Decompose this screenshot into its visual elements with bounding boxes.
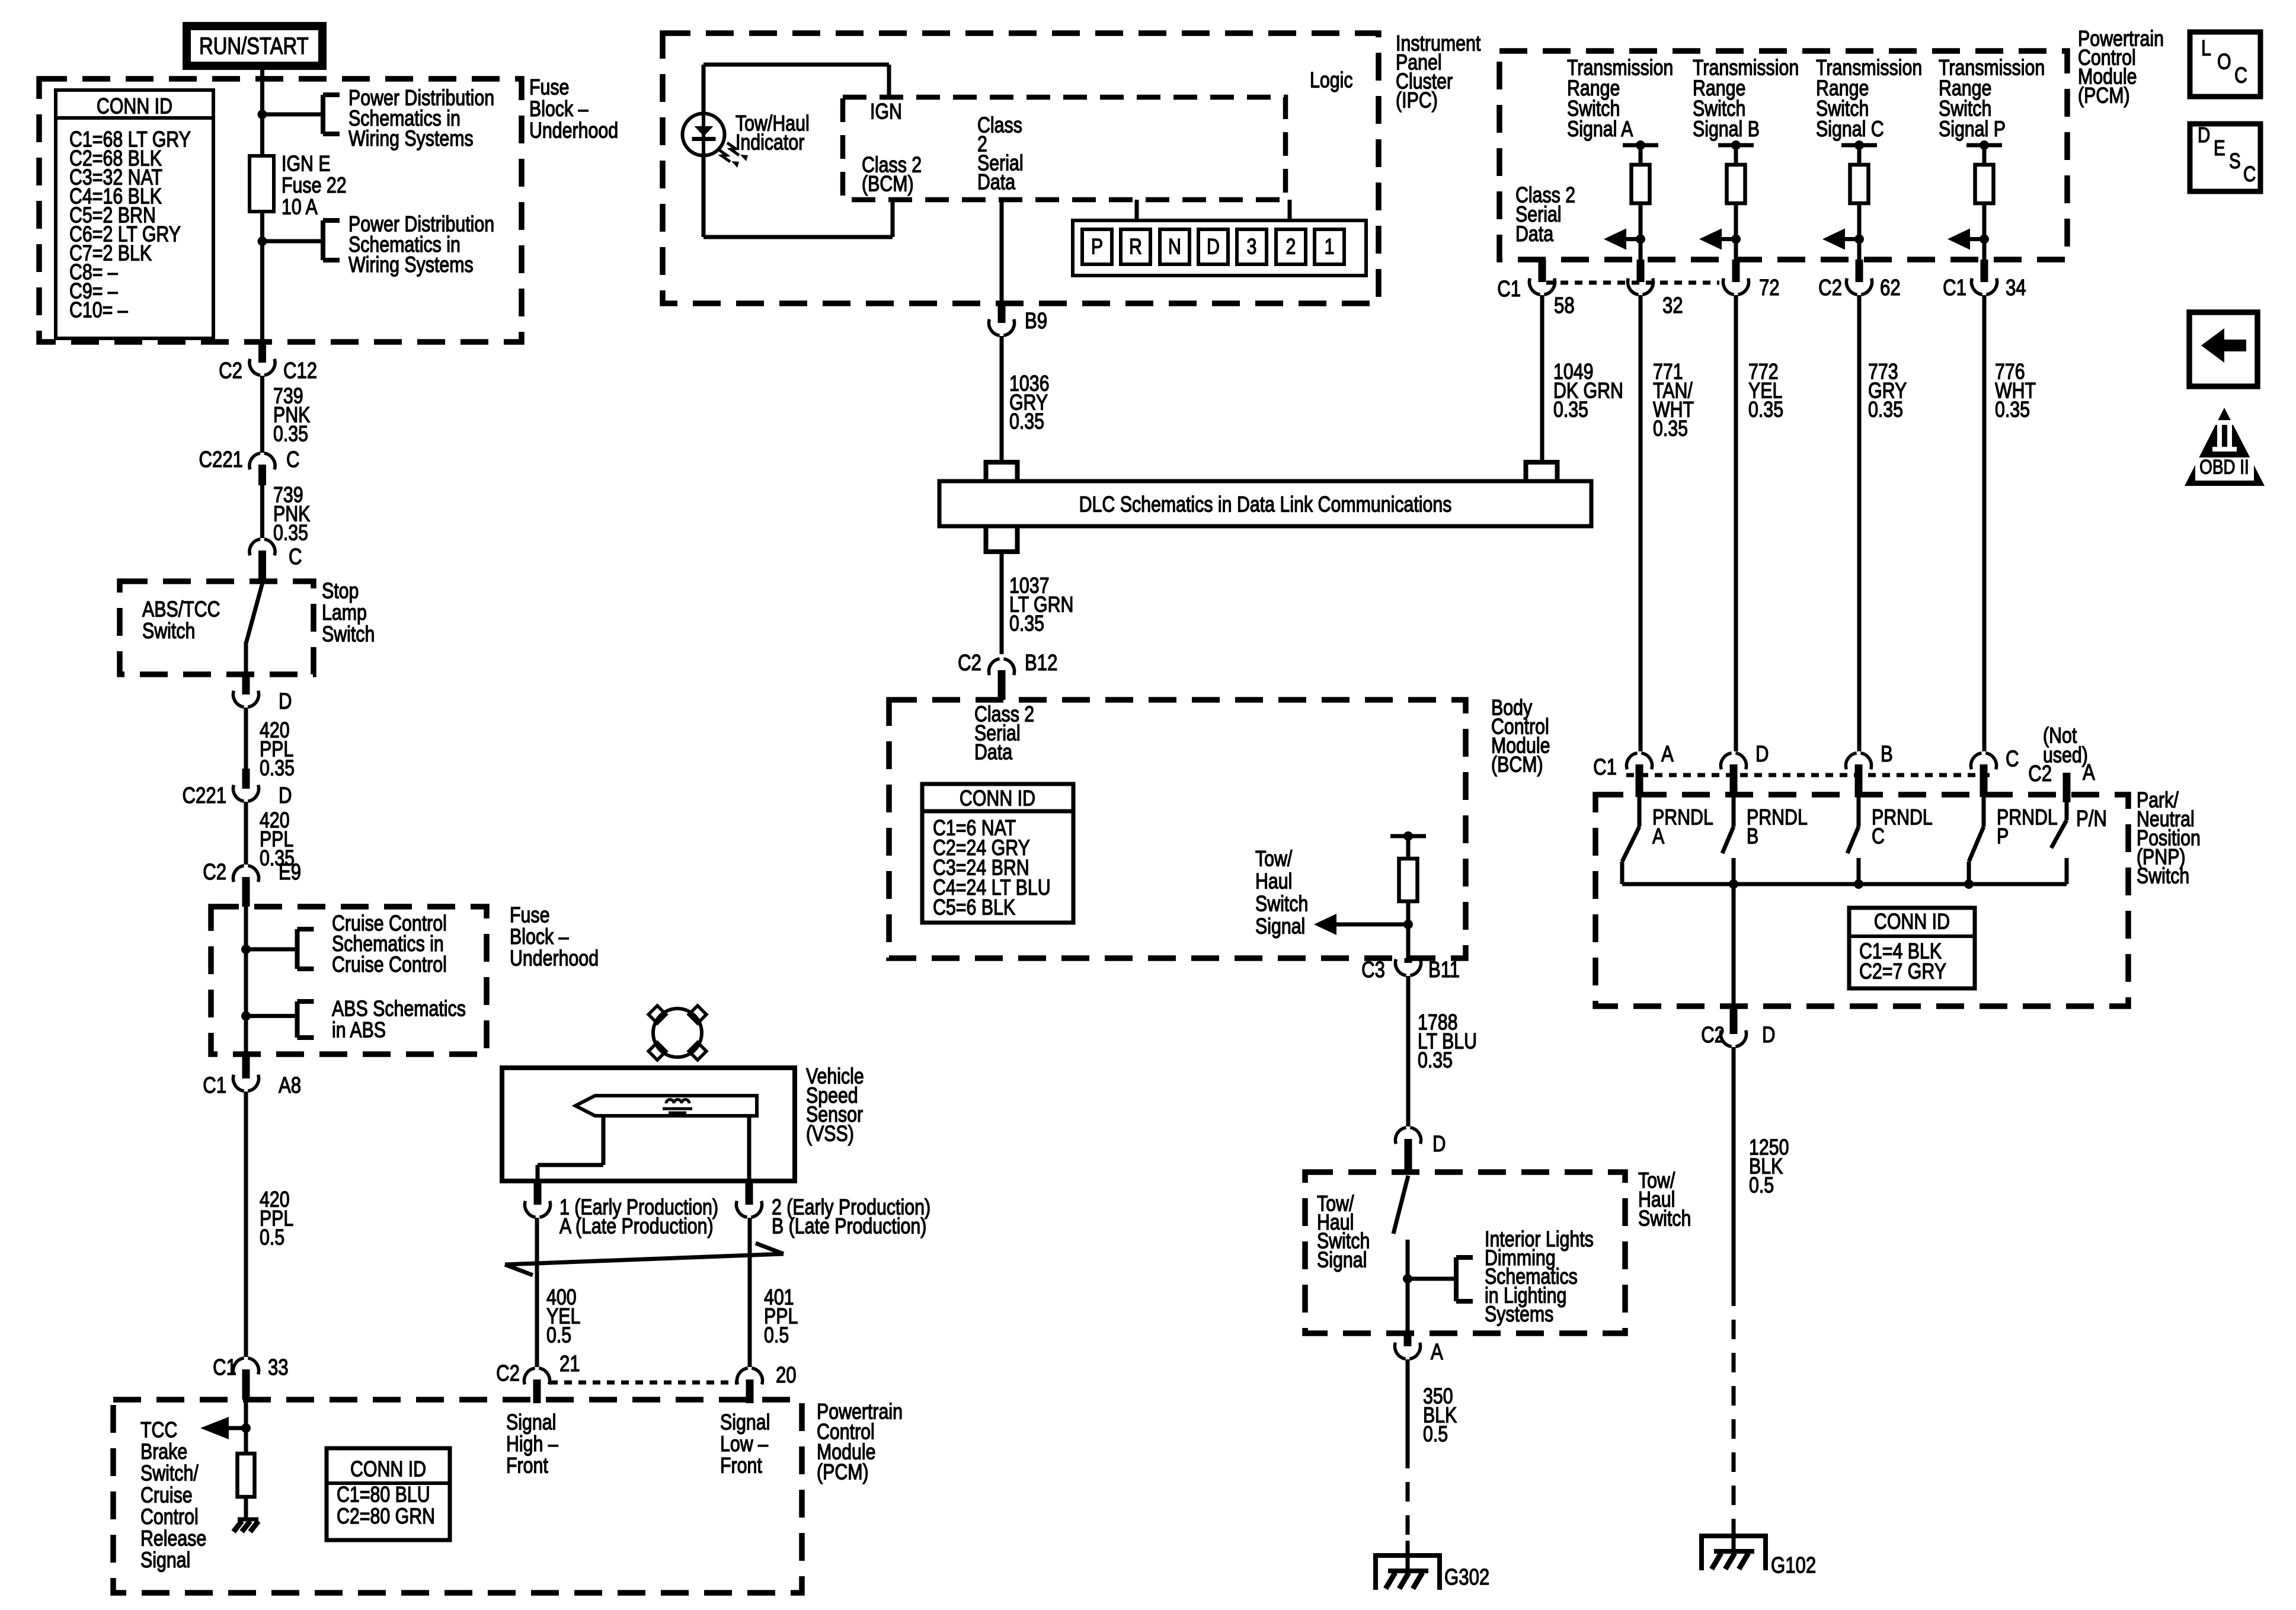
IPC logic dashed box [843,97,1285,200]
VSS internal wire pin2 [747,1116,752,1181]
svg-text:ABS/TCC: ABS/TCC [142,597,220,622]
svg-text:0.5: 0.5 [764,1323,789,1348]
svg-text:TCC: TCC [140,1418,177,1443]
svg-text:C1=80 BLU: C1=80 BLU [337,1483,430,1507]
svg-text:Control: Control [140,1505,199,1529]
junction node bar A [1636,140,1645,150]
svg-text:Switch: Switch [1638,1206,1691,1231]
svg-text:Signal A: Signal A [1567,117,1633,142]
vehicle speed sensor box [502,1068,795,1181]
svg-text:A: A [1652,824,1665,849]
svg-text:C2: C2 [219,359,242,383]
svg-text:CONN ID: CONN ID [97,94,172,119]
svg-text:0.35: 0.35 [273,521,308,546]
svg-text:Low –: Low – [720,1432,768,1457]
wire 1250 BLK dashed [1732,1286,1736,1528]
connector pin 20 [746,1379,754,1403]
PRNDL P switch blade [1982,797,1986,827]
svg-text:C10= –: C10= – [69,298,128,323]
resistor (tow/haul pullup) [1399,859,1418,901]
svg-text:0.5: 0.5 [546,1323,571,1348]
svg-text:B: B [1747,824,1758,849]
svg-text:1: 1 [1325,235,1335,260]
svg-text:C221: C221 [199,447,243,472]
wire below blade [1406,1240,1410,1333]
svg-text:Stop: Stop [322,579,359,604]
svg-text:E9: E9 [279,860,301,885]
svg-text:used): used) [2043,743,2088,768]
connector C221/C [258,465,266,485]
pullup bar P [1966,143,2002,148]
svg-text:(BCM): (BCM) [1491,753,1543,777]
twisted pair indicator arrow [505,1254,784,1265]
instrument panel cluster dashed box [663,33,1379,303]
svg-text:OBD II: OBD II [2199,456,2249,478]
reluctor gear symbol [653,1009,702,1057]
junction node bus D [1729,879,1738,889]
svg-text:Fuse: Fuse [529,75,569,100]
tow/haul indicator LED [683,114,725,156]
svg-text:(PCM): (PCM) [2078,84,2130,108]
svg-text:G102: G102 [1771,1553,1816,1578]
CONN ID table (PCM bottom) [327,1448,450,1540]
svg-text:High –: High – [506,1432,558,1457]
VSS coil squiggle [666,1100,689,1104]
wire 400 YEL [535,1218,539,1367]
svg-text:C: C [2006,747,2019,772]
svg-text:C1: C1 [1497,277,1521,302]
wire 739 PNK segment 1 [260,376,264,453]
PRNDL A switch blade [1638,797,1642,827]
fuse block dashed box [39,79,522,342]
svg-text:CONN ID: CONN ID [1874,910,1950,934]
connector C1/A (PNP) [1636,764,1643,797]
connector pin B (PNP) [1855,764,1863,797]
wire 350 BLK dashed to ground [1406,1449,1410,1541]
junction node bar B [1731,140,1741,150]
connector C1/A8 [242,1054,250,1078]
svg-text:D: D [279,689,292,714]
arrow range switch signal A [1626,237,1641,241]
wire 771 TAN/WHT [1639,295,1643,751]
PRND display stems [1135,200,1139,220]
svg-text:Systems: Systems [1485,1302,1553,1327]
wire 776 WHT [1982,295,1987,751]
connector pin 2/B (VSS) [746,1181,753,1205]
junction node (dimming) [1403,1274,1412,1283]
P/N switch blade [2065,802,2069,820]
junction node arrow A [1636,235,1645,244]
svg-text:C: C [2243,162,2256,185]
wire 420 PPL segment 1 [244,708,248,769]
connector line PNP (dotted) [1626,773,1996,777]
svg-text:B (Late Production): B (Late Production) [772,1214,926,1239]
cruise fuse block dashed box [211,907,487,1054]
svg-text:62: 62 [1880,276,1901,300]
legend box DESC [2190,124,2260,191]
PCM dashed box (bottom left) [113,1400,802,1593]
wire LED bottom return [702,155,706,237]
wire pin33 into PCM [244,1400,248,1428]
svg-text:Release: Release [140,1526,206,1551]
svg-text:Signal: Signal [1317,1247,1367,1272]
svg-text:Front: Front [506,1454,548,1478]
svg-text:P/N: P/N [2076,806,2107,831]
arrow tow/haul switch signal [1336,923,1408,927]
svg-text:0.35: 0.35 [1009,409,1044,434]
svg-text:Indicator: Indicator [736,130,804,155]
svg-text:2: 2 [1286,235,1296,260]
wire resistor to arrow B [1734,203,1738,260]
wire LED top feed [702,65,706,114]
wire 350 BLK solid [1406,1359,1410,1449]
svg-text:S: S [2229,149,2241,172]
connector C2/B12 [998,670,1006,700]
svg-text:0.5: 0.5 [1749,1173,1774,1198]
svg-text:Fuse: Fuse [510,903,549,928]
PRND segment 1 [1315,229,1344,264]
ground G302 [1373,1553,1442,1558]
junction node (lower feed) [258,236,267,246]
wire PNP to C2/D [1732,884,1736,1006]
svg-text:20: 20 [776,1363,797,1388]
svg-text:Tow/: Tow/ [1255,847,1293,872]
wire bar to resistor [1406,836,1411,859]
svg-text:Data: Data [977,170,1015,195]
svg-text:C: C [286,447,300,472]
svg-text:Brake: Brake [140,1439,187,1464]
wire 773 GRY [1857,295,1862,751]
connector pin C (PNP) [1980,764,1988,797]
junction node (cruise) [241,945,251,954]
svg-text:CONN ID: CONN ID [960,786,1035,811]
net bracket above DLC (1036) [984,460,1020,465]
svg-text:33: 33 [268,1355,289,1380]
svg-text:Switch/: Switch/ [140,1461,199,1486]
svg-text:B: B [1881,742,1893,767]
svg-text:Logic: Logic [1310,68,1353,93]
connector C221/D [242,769,250,789]
svg-text:L: L [2201,36,2211,61]
svg-text:B9: B9 [1025,309,1047,334]
VSS internal wire pin1 [602,1116,606,1165]
svg-text:0.35: 0.35 [1995,398,2030,422]
off-page bracket (ABS) [295,1001,300,1038]
svg-text:Signal C: Signal C [1816,117,1884,142]
legend box LOC [2190,32,2260,97]
wire bar to resistor C [1857,145,1862,165]
wire 1049 DK GRN [1540,295,1544,460]
PRND segment D [1198,229,1228,264]
wire to dimming bracket [1408,1277,1456,1281]
svg-text:D: D [1762,1023,1776,1048]
svg-text:C2=7 GRY: C2=7 GRY [1859,959,1946,984]
body control module dashed box [889,700,1466,958]
svg-text:D: D [1207,235,1220,260]
svg-text:C1: C1 [203,1073,226,1098]
resistor range switch B [1727,165,1745,203]
svg-text:D: D [1432,1132,1446,1157]
net bracket below DLC (1037) [984,549,1020,554]
wire class2 serial data out [1000,200,1004,303]
arrow range switch signal P [1970,237,1984,241]
connector C1/33 [242,1369,250,1400]
connector pin 72 [1732,260,1740,282]
PCM dashed box (top right) [1499,51,2067,260]
PRND segment R [1121,229,1150,264]
off-page bracket (lower power distribution) [321,220,325,260]
arrow range switch signal C [1845,237,1859,241]
PRNDL C switch blade [1857,797,1861,827]
svg-text:IGN: IGN [870,100,902,124]
svg-text:Block –: Block – [529,97,589,121]
svg-text:C1: C1 [1593,755,1617,780]
junction node arrow P [1980,235,1989,244]
wire resistor to ground [244,1497,248,1519]
wire to upper reference bracket [263,113,321,117]
svg-text:CONN ID: CONN ID [350,1457,426,1482]
wire RUN/START to fuse block [260,69,264,114]
svg-text:A: A [1661,742,1674,767]
svg-text:0.5: 0.5 [260,1225,284,1250]
tow/haul switch blade [1393,1176,1408,1234]
svg-text:D: D [1755,742,1769,767]
svg-text:Haul: Haul [1255,869,1292,894]
off-page bracket (cruise control) [295,929,300,969]
junction node bus P [1964,879,1974,889]
wire 1037 LT GRN [1000,552,1004,654]
pullup bar A [1623,143,1658,148]
stop lamp switch blade [246,584,263,644]
BCM tow/haul pullup bar [1390,834,1426,838]
junction node arrow B [1731,235,1741,244]
svg-text:RUN/START: RUN/START [199,33,309,59]
svg-text:Signal: Signal [720,1410,770,1435]
svg-text:0.35: 0.35 [1653,417,1688,441]
svg-text:C12: C12 [283,359,317,383]
svg-text:0.35: 0.35 [1868,398,1903,422]
PRND segment 2 [1276,229,1306,264]
wire bar to resistor B [1734,145,1738,165]
PRND segment 3 [1237,229,1267,264]
junction node arrow C [1854,235,1864,244]
ground (TCC internal) [238,1518,258,1522]
svg-text:C2: C2 [203,860,226,885]
svg-text:0.35: 0.35 [260,756,295,781]
wire bar to resistor A [1639,145,1643,165]
off-page bracket (interior lights dimming) [1454,1257,1459,1301]
svg-text:C: C [2234,63,2247,88]
connector C2/E9 [242,877,250,907]
svg-text:Lamp: Lamp [322,600,367,625]
net bracket above DLC (1049) [1524,460,1560,465]
svg-text:E: E [2214,136,2225,159]
wire 420 PPL 0.5 [244,1092,248,1357]
svg-text:Front: Front [720,1454,762,1478]
svg-text:58: 58 [1554,293,1575,318]
PRNDL B switch blade [1732,797,1736,827]
connector C2/D (PNP out) [1730,1006,1738,1034]
svg-text:C5=6 BLK: C5=6 BLK [933,895,1016,920]
wire junction to fuse [260,114,264,156]
connector B9 [998,303,1006,323]
VSS pickup coil arrow [575,1096,757,1116]
P/N bottom contact [2065,858,2069,884]
wire 739 PNK segment 2 [260,485,264,538]
junction node (bar) [1403,831,1413,841]
wire blade to box edge [244,642,248,674]
svg-text:A (Late Production): A (Late Production) [559,1214,714,1239]
svg-text:Signal B: Signal B [1693,117,1760,142]
resistor range switch A [1632,165,1650,203]
arrow TCC brake switch signal [229,1426,246,1430]
resistor range switch C [1850,165,1869,203]
off-page bracket (upper power distribution) [321,95,325,134]
svg-text:R: R [1129,235,1142,260]
DLC schematics box [939,481,1591,526]
svg-text:C2: C2 [1701,1023,1725,1048]
svg-text:A: A [1431,1340,1444,1365]
svg-text:0.5: 0.5 [1423,1422,1448,1447]
svg-text:Cruise Control: Cruise Control [332,952,447,977]
connector C1/58 [1539,260,1546,282]
wire resistor to arrow C [1857,203,1862,260]
wire resistor to junction [1406,901,1411,958]
connector pin 1/A (VSS) [534,1181,542,1205]
svg-text:(IPC): (IPC) [1396,88,1438,113]
svg-text:0.35: 0.35 [1748,398,1783,422]
wire bar to resistor P [1982,145,1987,165]
svg-text:(VSS): (VSS) [806,1122,854,1147]
svg-text:C2: C2 [496,1361,520,1386]
svg-text:Signal: Signal [506,1410,556,1435]
PRND segment P [1082,229,1112,264]
tow/haul switch dashed box [1305,1172,1625,1333]
svg-text:D: D [2198,123,2210,146]
CONN ID table (fuse block) [56,90,213,338]
svg-text:N: N [1168,235,1181,260]
svg-text:C2=80 GRN: C2=80 GRN [337,1504,435,1529]
svg-text:(BCM): (BCM) [862,172,914,197]
power feed box RUN/START [187,26,322,66]
wire junction to resistor [244,1428,248,1454]
svg-text:10 A: 10 A [282,195,318,220]
fuse IGN E Fuse 22 10A [250,156,274,212]
connector C1/34 [1981,260,1988,282]
svg-text:Data: Data [974,740,1012,765]
svg-text:32: 32 [1662,293,1683,318]
PNP bus wire [1622,882,1969,886]
junction node bar C [1854,140,1864,150]
wire resistor to arrow A [1639,203,1643,260]
svg-text:C: C [1872,824,1885,849]
wire resistor to arrow P [1982,203,1987,260]
wire 1250 BLK solid [1732,1047,1736,1286]
wire 420 PPL segment 2 [244,802,248,865]
svg-text:O: O [2217,50,2231,75]
svg-text:0.35: 0.35 [1009,612,1044,636]
wire 401 PPL [748,1218,752,1367]
CONN ID table (BCM) [922,784,1073,923]
legend OBD II triangle [2185,408,2265,486]
connector D (below stop lamp) [242,674,250,694]
junction node bus B [1854,879,1863,889]
wire junction to fuse block edge [260,241,264,342]
resistor (TCC pull) [238,1454,255,1497]
ground G102 [1699,1534,1768,1538]
connector C2/21 [533,1379,541,1403]
LED emission arrows [718,149,730,162]
svg-text:B11: B11 [1428,958,1460,982]
wire 1788 LT BLU [1406,976,1411,1126]
resistor range switch P [1975,165,1994,203]
junction node TCC [241,1423,251,1433]
wire to abs bracket [246,1014,297,1018]
svg-text:IGN E: IGN E [282,152,331,177]
svg-text:Wiring Systems: Wiring Systems [348,252,474,277]
stop lamp switch dashed box [120,581,314,674]
svg-text:Wiring Systems: Wiring Systems [348,126,474,151]
wire 1036 GRY [1000,336,1004,460]
wire inside cruise fuse block [244,907,248,1054]
svg-text:Data: Data [1515,222,1553,247]
svg-text:72: 72 [1759,276,1780,300]
svg-text:DLC Schematics in Data Link Co: DLC Schematics in Data Link Communicatio… [1079,492,1452,517]
svg-text:C3: C3 [1361,958,1385,982]
junction node (tow/haul signal) [1403,920,1413,929]
svg-text:Switch: Switch [142,619,195,644]
svg-text:Cruise: Cruise [140,1483,193,1507]
svg-text:D: D [279,783,292,808]
wire to lower reference bracket [263,239,321,244]
svg-text:Underhood: Underhood [529,119,618,143]
park/neutral position switch dashed box [1595,795,2128,1006]
pullup bar B [1718,143,1754,148]
wire 772 YEL [1734,295,1738,751]
svg-text:0.35: 0.35 [273,422,308,447]
svg-text:Fuse 22: Fuse 22 [282,173,347,198]
svg-text:G302: G302 [1444,1565,1489,1590]
junction node bar P [1980,140,1989,150]
svg-text:C1: C1 [1943,276,1966,300]
svg-text:C2: C2 [1818,276,1842,300]
connector C (stop lamp switch) [258,550,266,581]
svg-text:Underhood: Underhood [510,946,599,971]
stub C2/A not used [2063,773,2071,802]
connector C2/62 [1856,260,1863,282]
svg-text:B12: B12 [1025,651,1057,676]
svg-text:Block –: Block – [510,924,569,949]
svg-text:C221: C221 [183,783,226,808]
svg-text:Switch: Switch [2137,864,2189,889]
connector C3/B11 [1405,958,1412,963]
svg-text:0.35: 0.35 [1553,398,1588,422]
connector pin 32 [1637,260,1645,282]
svg-text:(PCM): (PCM) [817,1460,869,1485]
connector C2/C12 [258,342,266,363]
wire fuse to lower junction [260,212,264,241]
connector pin D (PNP) [1730,764,1738,797]
wire to cruise bracket [246,948,297,952]
svg-text:Switch: Switch [1255,892,1308,917]
svg-text:in ABS: in ABS [332,1018,386,1043]
connector A (tow/haul ground) [1404,1333,1412,1346]
arrow range switch signal B [1722,237,1736,241]
svg-text:C2: C2 [958,651,981,676]
svg-text:34: 34 [2006,276,2026,300]
connector line C2 PCM (dotted) [550,1381,738,1385]
svg-text:Signal: Signal [140,1548,190,1573]
